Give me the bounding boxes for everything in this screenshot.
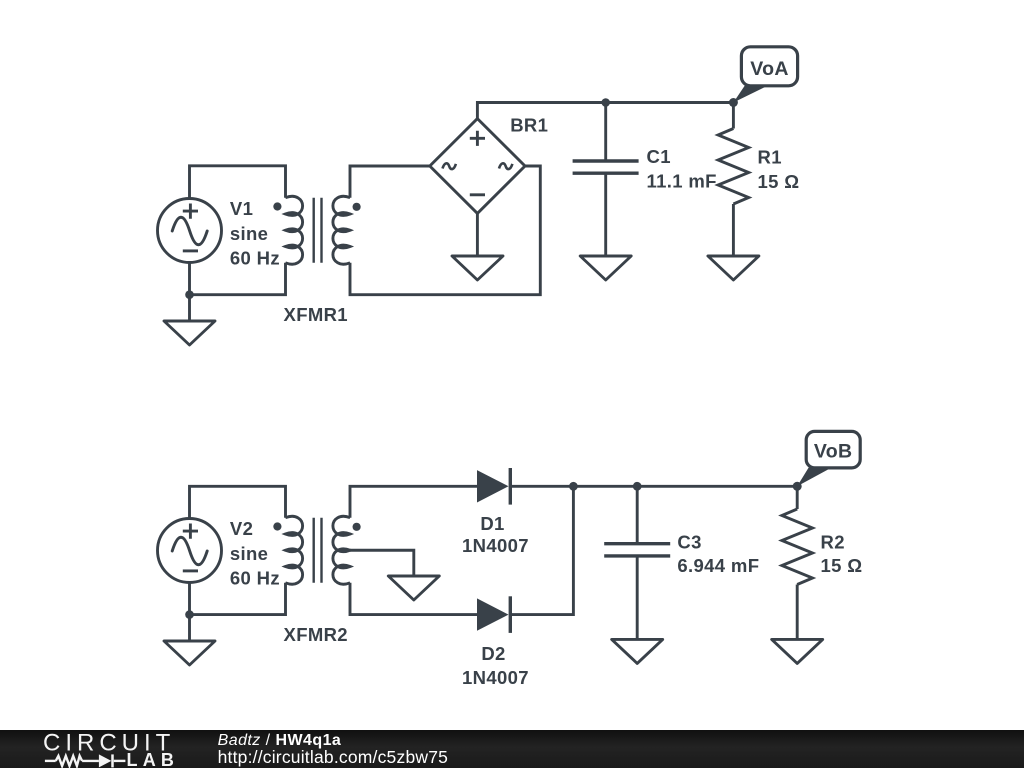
V2 body circle bbox=[158, 519, 222, 583]
resistor R2 bbox=[782, 486, 813, 639]
svg-text:D1: D1 bbox=[480, 513, 504, 534]
label C1 value bbox=[647, 146, 717, 191]
svg-text:VoB: VoB bbox=[814, 441, 853, 463]
svg-text:C3: C3 bbox=[677, 532, 701, 553]
BR1 ac input mark right bbox=[499, 163, 512, 169]
V1 minus polarity mark bbox=[183, 249, 198, 252]
label C3 value bbox=[677, 532, 759, 576]
wire ground lead below V1 bbox=[188, 295, 191, 321]
svg-text:V2: V2 bbox=[230, 518, 253, 539]
V1 body circle bbox=[158, 199, 222, 263]
svg-text:V1: V1 bbox=[230, 198, 253, 219]
XFMR1 primary phase dot bbox=[273, 202, 281, 210]
XFMR2 primary phase dot bbox=[273, 522, 281, 530]
wire D2 up to rail bbox=[511, 486, 573, 614]
wire D1 to VoB rail bbox=[511, 485, 797, 488]
wire bridge top to top rail to VoA bbox=[477, 103, 733, 119]
wire R1 bottom lead bbox=[732, 204, 735, 256]
flag VoB bbox=[797, 431, 860, 486]
logo diode triangle bbox=[99, 754, 111, 767]
D2 cathode bar bbox=[509, 596, 512, 633]
wire R1 top lead bbox=[732, 103, 735, 129]
svg-text:LAB: LAB bbox=[127, 750, 180, 768]
wire bridge right to XFMR1 secondary bottom bbox=[350, 166, 540, 295]
label BR1 bbox=[510, 114, 548, 135]
logo diode bar bbox=[111, 754, 114, 767]
wire XFMR2 primary bottom to V2 bottom bbox=[190, 583, 286, 615]
V1 plus polarity mark bbox=[183, 204, 198, 219]
label XFMR2 bbox=[284, 624, 348, 645]
svg-text:1N4007: 1N4007 bbox=[462, 667, 529, 688]
node VoA bbox=[729, 98, 738, 107]
V2 minus polarity mark bbox=[183, 569, 198, 572]
ground below BR1 bbox=[452, 256, 503, 280]
logo wire left bbox=[45, 759, 56, 761]
voltage source V2 bbox=[158, 519, 222, 583]
label D2 value bbox=[462, 643, 529, 688]
node junction C1 top bbox=[601, 98, 610, 107]
ground below R1 bbox=[708, 256, 759, 280]
VoA flag pointer bbox=[733, 85, 768, 102]
D1 cathode bar bbox=[509, 468, 512, 505]
footer title text bbox=[218, 733, 342, 749]
V2 plus polarity mark bbox=[183, 524, 198, 539]
wire R2 top lead bbox=[796, 486, 799, 509]
resistor R1 bbox=[718, 103, 749, 257]
svg-text:XFMR1: XFMR1 bbox=[284, 304, 348, 325]
wire C1 top lead bbox=[604, 103, 607, 162]
logo wire right bbox=[114, 759, 126, 761]
BR1 ac input mark left bbox=[443, 163, 456, 169]
wire ground lead below V2 bbox=[188, 615, 191, 641]
capacitor C1 bbox=[573, 103, 639, 257]
diode D1 bbox=[477, 468, 510, 505]
svg-text:XFMR2: XFMR2 bbox=[284, 624, 348, 645]
node junction V2 bottom bbox=[185, 610, 194, 619]
BR1 plus output mark bbox=[470, 131, 485, 146]
wire C1 bottom lead bbox=[604, 173, 607, 256]
node junction V1 bottom bbox=[185, 290, 194, 299]
BR1 minus output mark bbox=[470, 193, 485, 196]
R2 zigzag body bbox=[782, 509, 813, 585]
ground below V2 bbox=[164, 615, 215, 665]
svg-text:sine: sine bbox=[230, 543, 268, 564]
wire XFMR2 center tap to ground bbox=[350, 550, 414, 576]
XFMR2 core bbox=[314, 518, 322, 583]
C1 bottom plate bbox=[573, 171, 639, 174]
svg-text:11.1 mF: 11.1 mF bbox=[647, 170, 717, 191]
ground below V1 bbox=[164, 295, 215, 345]
label D1 value bbox=[462, 513, 529, 556]
label R1 value bbox=[758, 147, 800, 192]
C3 top plate bbox=[604, 542, 670, 545]
wire C3 top lead bbox=[636, 486, 639, 543]
wire XFMR2 secondary bottom to D2 bbox=[350, 583, 478, 615]
diode D2 bbox=[477, 596, 510, 633]
wire V1 top to XFMR1 primary top bbox=[190, 166, 286, 199]
flag VoA bbox=[733, 47, 797, 103]
V2 sine symbol bbox=[172, 537, 207, 565]
XFMR2 secondary phase dot bbox=[353, 523, 361, 531]
svg-text:1N4007: 1N4007 bbox=[462, 535, 529, 556]
D2 anode triangle bbox=[477, 598, 509, 630]
VoA flag bubble bbox=[741, 47, 797, 86]
ground at center tap bbox=[388, 576, 439, 600]
wire C3 bottom lead bbox=[636, 556, 639, 640]
BR1 diamond body bbox=[430, 119, 525, 214]
footer bar bbox=[0, 730, 1024, 768]
D1 anode triangle bbox=[477, 470, 509, 502]
CircuitLab logo bbox=[0, 730, 200, 768]
node junction D2/rail bbox=[569, 482, 578, 491]
label V1 value bbox=[230, 198, 280, 268]
svg-text:BR1: BR1 bbox=[510, 114, 548, 135]
VoB flag pointer bbox=[797, 468, 831, 487]
ground triangle below V1 bbox=[164, 321, 215, 345]
bridge rectifier BR1 bbox=[430, 119, 525, 214]
wire XFMR1 primary bottom to V1 bottom bbox=[190, 263, 286, 295]
svg-text:R2: R2 bbox=[821, 532, 845, 553]
label R2 value bbox=[821, 532, 863, 576]
svg-text:C1: C1 bbox=[647, 146, 671, 167]
node VoB bbox=[793, 482, 802, 491]
XFMR1 secondary phase dot bbox=[353, 203, 361, 211]
svg-text:VoA: VoA bbox=[750, 58, 789, 80]
svg-text:60 Hz: 60 Hz bbox=[230, 568, 280, 589]
XFMR2 primary winding bbox=[285, 516, 302, 584]
svg-text:R1: R1 bbox=[758, 147, 782, 168]
C3 bottom plate bbox=[604, 554, 670, 557]
ground below C3 bbox=[612, 639, 663, 663]
footer url text bbox=[218, 749, 448, 767]
R1 zigzag body bbox=[718, 129, 749, 205]
transformer XFMR1 bbox=[273, 196, 360, 264]
V1 sine symbol bbox=[172, 217, 207, 245]
ground triangle below V2 bbox=[164, 641, 215, 665]
svg-text:60 Hz: 60 Hz bbox=[230, 248, 280, 269]
transformer XFMR2 bbox=[273, 516, 360, 584]
VoB flag bubble bbox=[806, 431, 860, 468]
svg-text:15 Ω: 15 Ω bbox=[821, 555, 863, 576]
voltage source V1 bbox=[158, 199, 222, 263]
XFMR1 primary winding bbox=[285, 196, 302, 264]
logo resistor zigzag bbox=[56, 755, 82, 765]
ground below R2 bbox=[772, 639, 823, 663]
XFMR1 secondary winding bbox=[333, 196, 350, 264]
XFMR2 secondary winding bbox=[333, 516, 350, 584]
svg-text:D2: D2 bbox=[481, 643, 505, 664]
wire R2 bottom lead bbox=[796, 585, 799, 640]
wire V2 top to XFMR2 primary top bbox=[190, 486, 286, 518]
C1 top plate bbox=[573, 159, 639, 162]
svg-text:sine: sine bbox=[230, 223, 268, 244]
label V2 value bbox=[230, 518, 280, 588]
wire XFMR2 secondary top to D1 bbox=[350, 486, 478, 517]
node junction C3 top bbox=[633, 482, 642, 491]
wire XFMR1 secondary top to bridge left bbox=[350, 166, 430, 198]
ground below C1 bbox=[580, 256, 631, 280]
label XFMR1 bbox=[284, 304, 348, 325]
logo wire middle bbox=[82, 759, 99, 761]
svg-text:6.944 mF: 6.944 mF bbox=[677, 555, 759, 576]
wire bridge bottom to ground bbox=[476, 213, 479, 256]
capacitor C3 bbox=[604, 486, 670, 639]
XFMR1 core bbox=[314, 198, 322, 263]
svg-text:15 Ω: 15 Ω bbox=[758, 171, 800, 192]
